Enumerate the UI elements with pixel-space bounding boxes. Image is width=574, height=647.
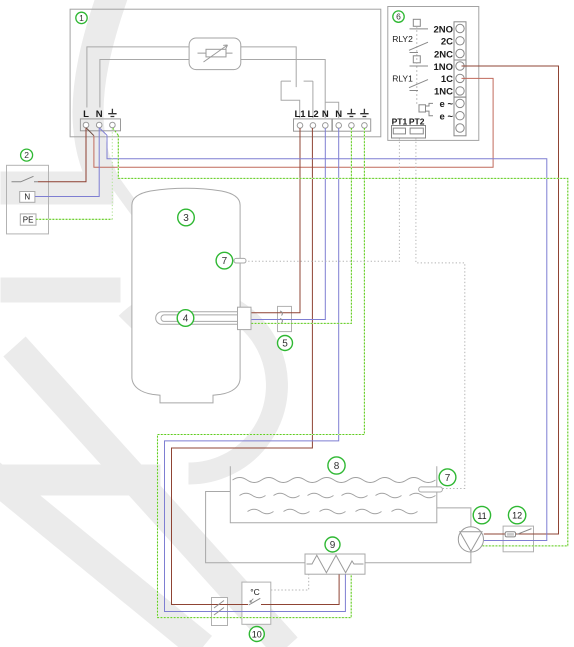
node label 2 (21, 149, 33, 161)
svg-text:L1: L1 (294, 109, 306, 120)
wire: L terminal to cutout (gray internal) (87, 47, 189, 108)
switch in box 2 (12, 176, 39, 181)
water waves row2 (240, 493, 436, 498)
connector block 5 (bottom) (212, 598, 228, 626)
node label 1 (76, 12, 87, 23)
relay coil element (419, 105, 426, 112)
wire: cutout top to L1/L2 tee (241, 47, 296, 87)
svg-text:5: 5 (282, 339, 288, 350)
wire N blade link (100, 128, 108, 135)
pipe tub to pump (437, 508, 471, 527)
wire L1 to element (252, 128, 301, 313)
svg-text:3: 3 (183, 213, 189, 224)
svg-text:PT2: PT2 (409, 117, 425, 127)
wire L blade link (86, 128, 94, 136)
svg-text:9: 9 (330, 540, 336, 551)
wire PE vertical pale (111, 128, 113, 220)
earth symbol left strip (108, 109, 116, 117)
node label 6 (393, 11, 404, 22)
svg-text:1C: 1C (441, 74, 453, 85)
terminal strip left (L N PE) (80, 119, 120, 131)
svg-text:1NC: 1NC (434, 87, 453, 98)
immersion element E4 (156, 312, 250, 325)
thermostat S10 (242, 582, 271, 624)
watermark background (0, 0, 287, 647)
wire earth blade link (113, 128, 119, 135)
connector 5 bottom jog marks (214, 601, 224, 616)
wire earth E1 to element (252, 128, 352, 323)
wire: cutout bottom to N terminals (241, 60, 339, 119)
svg-text:1NO: 1NO (433, 62, 453, 73)
svg-text:4: 4 (183, 314, 189, 325)
terminal strip right (L1 L2 N N PE PE) (294, 119, 371, 131)
connector 5 tank jog marks (280, 311, 282, 323)
wire N run to pump (107, 135, 547, 540)
svg-text:12: 12 (512, 511, 522, 521)
pipe tub to heater (206, 492, 305, 563)
relay RLY1 coil square (413, 56, 420, 63)
svg-text:RLY2: RLY2 (392, 34, 413, 44)
thermostat capillary dotted (271, 574, 309, 590)
svg-text:e ~: e ~ (440, 112, 454, 123)
svg-text:2NC: 2NC (434, 49, 453, 60)
svg-text:N: N (335, 109, 342, 120)
PT terminal block (392, 126, 426, 139)
svg-text:RLY1: RLY1 (392, 73, 413, 83)
node label 7 tank (216, 252, 233, 269)
mechanical link dotted (416, 26, 418, 104)
water waves row3 (248, 509, 418, 514)
wire 1C run (L to relay common) (94, 78, 493, 167)
thermostat switch blade (249, 598, 261, 605)
svg-text:N: N (24, 193, 30, 202)
svg-text:PT1: PT1 (392, 117, 408, 127)
svg-text:°C: °C (250, 587, 260, 597)
pump P11 (458, 527, 483, 552)
svg-text:2C: 2C (441, 37, 453, 48)
wire N supply (box1 N to box2 N) (35, 128, 99, 197)
heater R9 (305, 554, 365, 574)
node label 8 (328, 457, 345, 474)
svg-text:N: N (322, 109, 329, 120)
relay module U6 enclosure (388, 7, 479, 141)
wire L2 to heater (with thermostat break) (172, 128, 340, 605)
PE terminal box 2 (20, 214, 36, 225)
svg-text:2NO: 2NO (433, 24, 453, 35)
node label 7 tub (439, 469, 456, 486)
svg-text:e ~: e ~ (440, 99, 454, 110)
svg-text:11: 11 (477, 511, 486, 521)
tub B8 open vessel (230, 466, 436, 523)
box U1 immersion controller enclosure (70, 9, 381, 137)
node label 12 (508, 506, 525, 523)
svg-text:L2: L2 (308, 109, 319, 120)
svg-text:8: 8 (334, 461, 340, 472)
svg-text:6: 6 (396, 12, 401, 22)
element flange (238, 307, 252, 329)
RLY2 changeover contact (409, 29, 428, 53)
sensor wire PT2 to tub (416, 138, 465, 488)
water waves row1 (233, 478, 436, 483)
wire 1NO to valve and pump (462, 66, 559, 534)
wire earth run to pump (118, 135, 568, 546)
wire N3 to element (252, 128, 326, 320)
wire N2 to heater (165, 128, 346, 612)
tub sensor probe 7 (419, 487, 443, 492)
RLY1 changeover contact (409, 66, 428, 91)
svg-text:7: 7 (445, 473, 451, 484)
wire earth E2 to heater (158, 128, 365, 618)
connector block 5 (tank) (278, 306, 292, 331)
svg-text:7: 7 (222, 256, 228, 267)
wire L supply (box1 L to box2 switch) (38, 128, 86, 182)
earth symbol right strip 1 (347, 109, 355, 117)
relay RLY2 coil square (413, 19, 420, 26)
relay terminal strip (454, 22, 466, 136)
tank T3 cylinder (132, 188, 240, 403)
valve/isolator S12 (503, 526, 533, 552)
svg-text:L: L (83, 109, 89, 120)
node label 5 tank (278, 336, 293, 351)
earth symbol right strip 2 (360, 109, 368, 117)
wire: N terminal to cutout (gray internal) (100, 60, 189, 108)
wire PE horizontal box2 (36, 218, 112, 220)
svg-text:N: N (96, 109, 103, 120)
svg-text:10: 10 (252, 630, 262, 640)
node label 9 (325, 537, 340, 552)
thermal cutout TH (189, 38, 241, 70)
node label 10 (249, 627, 264, 642)
node label 4 (177, 310, 194, 327)
tank sensor probe 7 (234, 258, 246, 263)
node label 11 (473, 506, 490, 523)
wire pump L (484, 533, 503, 535)
valve fuse element (505, 532, 515, 537)
node label 3 (178, 209, 195, 226)
svg-text:PE: PE (23, 215, 34, 224)
N terminal box 2 (20, 192, 35, 203)
svg-text:1: 1 (79, 13, 84, 23)
valve switch blade (517, 529, 531, 535)
sensor wire tank to PT1 (246, 138, 399, 261)
pipe heater to pump (365, 552, 471, 563)
box 2 mains supply (7, 165, 49, 234)
svg-text:2: 2 (24, 150, 29, 160)
